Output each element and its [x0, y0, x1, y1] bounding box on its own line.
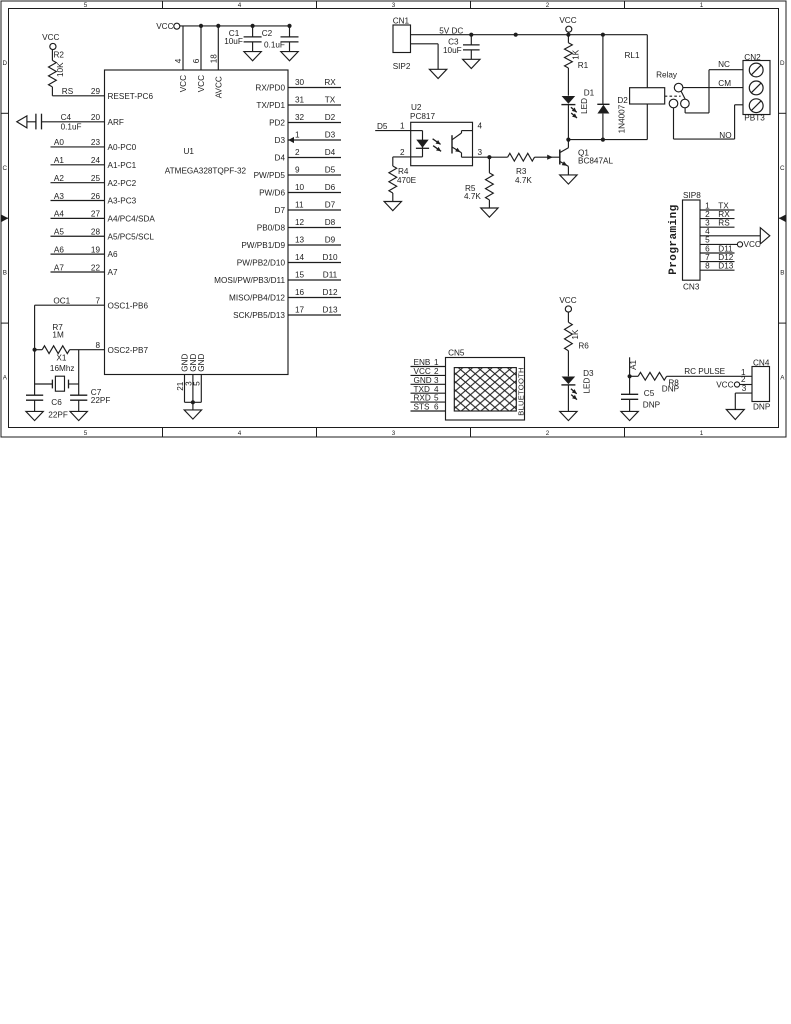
svg-text:D: D: [780, 60, 785, 67]
svg-text:PB0/D8: PB0/D8: [257, 224, 286, 233]
svg-text:PBT3: PBT3: [744, 114, 765, 123]
svg-text:VCC: VCC: [559, 16, 576, 25]
svg-text:U1: U1: [184, 147, 195, 156]
svg-text:CN3: CN3: [683, 283, 700, 292]
svg-text:3: 3: [434, 376, 439, 385]
svg-text:D5: D5: [325, 165, 336, 174]
svg-text:VCC: VCC: [744, 240, 761, 249]
svg-text:DNP: DNP: [662, 384, 680, 393]
svg-text:11: 11: [295, 200, 304, 209]
svg-text:3: 3: [742, 384, 747, 393]
svg-text:ARF: ARF: [108, 118, 124, 127]
svg-text:SIP2: SIP2: [393, 62, 411, 71]
svg-text:D3: D3: [583, 369, 594, 378]
svg-text:A0: A0: [54, 138, 64, 147]
svg-text:GND: GND: [414, 376, 432, 385]
svg-text:3: 3: [478, 148, 483, 157]
svg-text:2: 2: [546, 430, 550, 437]
svg-text:3: 3: [392, 430, 396, 437]
svg-text:5V DC: 5V DC: [439, 27, 463, 36]
svg-text:CN2: CN2: [744, 53, 761, 62]
svg-text:20: 20: [91, 113, 101, 122]
svg-text:26: 26: [91, 192, 101, 201]
svg-text:R2: R2: [54, 50, 65, 59]
svg-text:A6: A6: [108, 250, 118, 259]
svg-text:ENB: ENB: [414, 358, 431, 367]
svg-text:A3-PC3: A3-PC3: [108, 197, 137, 206]
svg-text:STS: STS: [414, 403, 430, 412]
svg-text:A0-PC0: A0-PC0: [108, 143, 137, 152]
svg-text:MOSI/PW/PB3/D11: MOSI/PW/PB3/D11: [214, 276, 285, 285]
svg-text:D7: D7: [275, 206, 286, 215]
svg-text:TX: TX: [325, 95, 336, 104]
svg-text:D5: D5: [377, 122, 388, 131]
svg-text:24: 24: [91, 156, 101, 165]
svg-text:9: 9: [295, 165, 300, 174]
svg-text:B: B: [3, 270, 7, 277]
svg-text:16Mhz: 16Mhz: [50, 364, 75, 373]
svg-text:1K: 1K: [572, 49, 581, 60]
svg-text:D2: D2: [617, 96, 628, 105]
svg-text:TXD: TXD: [414, 385, 430, 394]
svg-text:OSC2-PB7: OSC2-PB7: [108, 346, 149, 355]
svg-text:OC1: OC1: [53, 297, 70, 306]
svg-text:DNP: DNP: [753, 402, 771, 411]
svg-text:D3: D3: [275, 136, 286, 145]
svg-text:RXD: RXD: [414, 394, 431, 403]
svg-text:D1: D1: [584, 89, 595, 98]
svg-text:BLUETOOTH: BLUETOOTH: [516, 367, 525, 416]
svg-text:CN1: CN1: [393, 17, 410, 26]
svg-text:18: 18: [209, 54, 218, 64]
svg-text:R4: R4: [398, 167, 409, 176]
svg-text:A4: A4: [54, 210, 64, 219]
svg-text:PW/D6: PW/D6: [259, 189, 285, 198]
svg-text:PW/PD5: PW/PD5: [254, 171, 286, 180]
svg-text:4.7K: 4.7K: [515, 176, 532, 185]
svg-text:10K: 10K: [56, 62, 65, 77]
svg-text:8: 8: [95, 341, 100, 350]
svg-text:C: C: [780, 165, 785, 172]
svg-text:0.1uF: 0.1uF: [61, 122, 82, 131]
svg-text:A7: A7: [108, 268, 118, 277]
svg-text:A2-PC2: A2-PC2: [108, 179, 137, 188]
svg-text:A1: A1: [54, 156, 64, 165]
svg-text:RX: RX: [324, 78, 336, 87]
svg-text:VCC: VCC: [197, 75, 206, 92]
svg-text:7: 7: [95, 297, 100, 306]
svg-text:B: B: [780, 270, 784, 277]
svg-text:22: 22: [91, 263, 101, 272]
svg-text:D9: D9: [325, 235, 336, 244]
svg-text:A2: A2: [54, 174, 64, 183]
svg-text:D12: D12: [322, 288, 337, 297]
svg-text:27: 27: [91, 210, 101, 219]
svg-text:RS: RS: [718, 219, 730, 228]
svg-text:2: 2: [741, 375, 746, 384]
svg-text:PD2: PD2: [269, 119, 285, 128]
svg-text:A4/PC4/SDA: A4/PC4/SDA: [108, 215, 156, 224]
svg-text:A1-PC1: A1-PC1: [108, 161, 137, 170]
svg-text:2: 2: [400, 148, 405, 157]
svg-text:RL1: RL1: [625, 51, 640, 60]
svg-text:LED: LED: [582, 377, 591, 393]
svg-text:D4: D4: [275, 154, 286, 163]
svg-text:MISO/PB4/D12: MISO/PB4/D12: [229, 294, 285, 303]
svg-text:1N4007: 1N4007: [618, 104, 627, 133]
svg-text:TX/PD1: TX/PD1: [256, 101, 285, 110]
svg-text:5: 5: [84, 2, 88, 9]
svg-text:C5: C5: [644, 389, 655, 398]
svg-text:1K: 1K: [571, 329, 580, 340]
svg-text:D13: D13: [718, 262, 733, 271]
svg-text:1: 1: [700, 430, 704, 437]
svg-text:ATMEGA328TQPF-32: ATMEGA328TQPF-32: [165, 167, 247, 176]
svg-text:22PF: 22PF: [91, 396, 111, 405]
svg-text:15: 15: [295, 270, 305, 279]
svg-text:GND: GND: [197, 354, 206, 372]
svg-text:10uF: 10uF: [224, 37, 243, 46]
svg-text:OSC1-PB6: OSC1-PB6: [108, 301, 149, 310]
svg-text:D8: D8: [325, 218, 336, 227]
svg-text:C: C: [3, 165, 8, 172]
svg-text:13: 13: [295, 235, 305, 244]
svg-text:D2: D2: [325, 113, 336, 122]
svg-text:1: 1: [295, 130, 300, 139]
svg-text:10: 10: [295, 183, 305, 192]
svg-text:U2: U2: [411, 103, 422, 112]
svg-text:VCC: VCC: [716, 381, 733, 390]
svg-text:NO: NO: [719, 131, 731, 140]
svg-text:A7: A7: [54, 263, 64, 272]
svg-text:VCC: VCC: [179, 75, 188, 92]
svg-text:25: 25: [91, 174, 101, 183]
svg-text:X1: X1: [56, 354, 66, 363]
svg-text:3: 3: [392, 2, 396, 9]
svg-text:4: 4: [478, 122, 483, 131]
svg-text:AVCC: AVCC: [214, 76, 223, 98]
svg-text:VCC: VCC: [414, 367, 431, 376]
svg-text:C6: C6: [51, 398, 62, 407]
svg-text:1M: 1M: [52, 330, 64, 339]
svg-text:C4: C4: [61, 113, 72, 122]
svg-text:2: 2: [295, 148, 300, 157]
svg-text:6: 6: [434, 403, 439, 412]
svg-text:D3: D3: [325, 130, 336, 139]
svg-text:2: 2: [546, 2, 550, 9]
svg-text:LED: LED: [580, 98, 589, 114]
svg-text:RS: RS: [62, 87, 74, 96]
svg-text:470E: 470E: [397, 176, 417, 185]
svg-text:16: 16: [295, 288, 305, 297]
svg-text:VCC: VCC: [156, 22, 173, 31]
svg-text:5: 5: [434, 394, 439, 403]
svg-text:14: 14: [295, 253, 305, 262]
svg-text:PC817: PC817: [410, 112, 435, 121]
svg-text:RESET-PC6: RESET-PC6: [108, 92, 154, 101]
svg-text:4.7K: 4.7K: [464, 192, 481, 201]
svg-text:CN5: CN5: [448, 348, 465, 357]
svg-text:5: 5: [193, 381, 202, 386]
svg-text:D7: D7: [325, 200, 336, 209]
svg-text:RX/PD0: RX/PD0: [255, 84, 285, 93]
svg-text:4: 4: [238, 430, 242, 437]
svg-text:6: 6: [192, 58, 201, 63]
svg-text:19: 19: [91, 245, 101, 254]
svg-text:CN4: CN4: [753, 358, 770, 367]
svg-text:Programing: Programing: [668, 204, 680, 275]
svg-text:A5/PC5/SCL: A5/PC5/SCL: [108, 232, 155, 241]
svg-text:0.1uF: 0.1uF: [264, 40, 285, 49]
svg-text:17: 17: [295, 305, 305, 314]
svg-text:8: 8: [705, 262, 710, 271]
svg-text:D11: D11: [323, 270, 338, 279]
svg-text:30: 30: [295, 78, 305, 87]
svg-text:4: 4: [434, 385, 439, 394]
svg-text:D6: D6: [325, 183, 336, 192]
svg-text:12: 12: [295, 218, 305, 227]
svg-text:VCC: VCC: [559, 296, 576, 305]
svg-text:10uF: 10uF: [443, 46, 462, 55]
svg-text:D10: D10: [322, 253, 337, 262]
svg-text:C2: C2: [262, 29, 273, 38]
svg-text:22PF: 22PF: [48, 410, 68, 419]
svg-text:CM: CM: [718, 79, 731, 88]
svg-text:D: D: [3, 60, 8, 67]
svg-text:R6: R6: [578, 342, 589, 351]
svg-text:D13: D13: [322, 305, 337, 314]
svg-text:Relay: Relay: [656, 70, 678, 79]
svg-text:PW/PB2/D10: PW/PB2/D10: [237, 259, 286, 268]
svg-text:28: 28: [91, 228, 101, 237]
svg-text:SIP8: SIP8: [683, 191, 701, 200]
svg-text:NC: NC: [718, 60, 730, 69]
svg-text:23: 23: [91, 138, 101, 147]
svg-text:A1: A1: [629, 359, 638, 369]
svg-text:4: 4: [174, 58, 183, 63]
svg-text:32: 32: [295, 113, 305, 122]
svg-text:A5: A5: [54, 228, 64, 237]
svg-text:BC847AL: BC847AL: [578, 157, 613, 166]
svg-text:1: 1: [400, 122, 405, 131]
svg-text:29: 29: [91, 87, 101, 96]
svg-text:2: 2: [434, 367, 439, 376]
svg-text:D4: D4: [325, 148, 336, 157]
svg-text:R3: R3: [516, 167, 527, 176]
svg-text:5: 5: [84, 430, 88, 437]
svg-text:1: 1: [434, 358, 439, 367]
svg-text:4: 4: [238, 2, 242, 9]
svg-text:31: 31: [295, 95, 305, 104]
svg-text:RC PULSE: RC PULSE: [684, 367, 725, 376]
svg-text:A6: A6: [54, 245, 64, 254]
svg-text:DNP: DNP: [643, 401, 661, 410]
svg-text:1: 1: [700, 2, 704, 9]
svg-text:SCK/PB5/D13: SCK/PB5/D13: [233, 311, 285, 320]
svg-text:PW/PB1/D9: PW/PB1/D9: [241, 241, 285, 250]
svg-text:A3: A3: [54, 192, 64, 201]
svg-text:VCC: VCC: [42, 33, 59, 42]
svg-text:R1: R1: [578, 61, 589, 70]
